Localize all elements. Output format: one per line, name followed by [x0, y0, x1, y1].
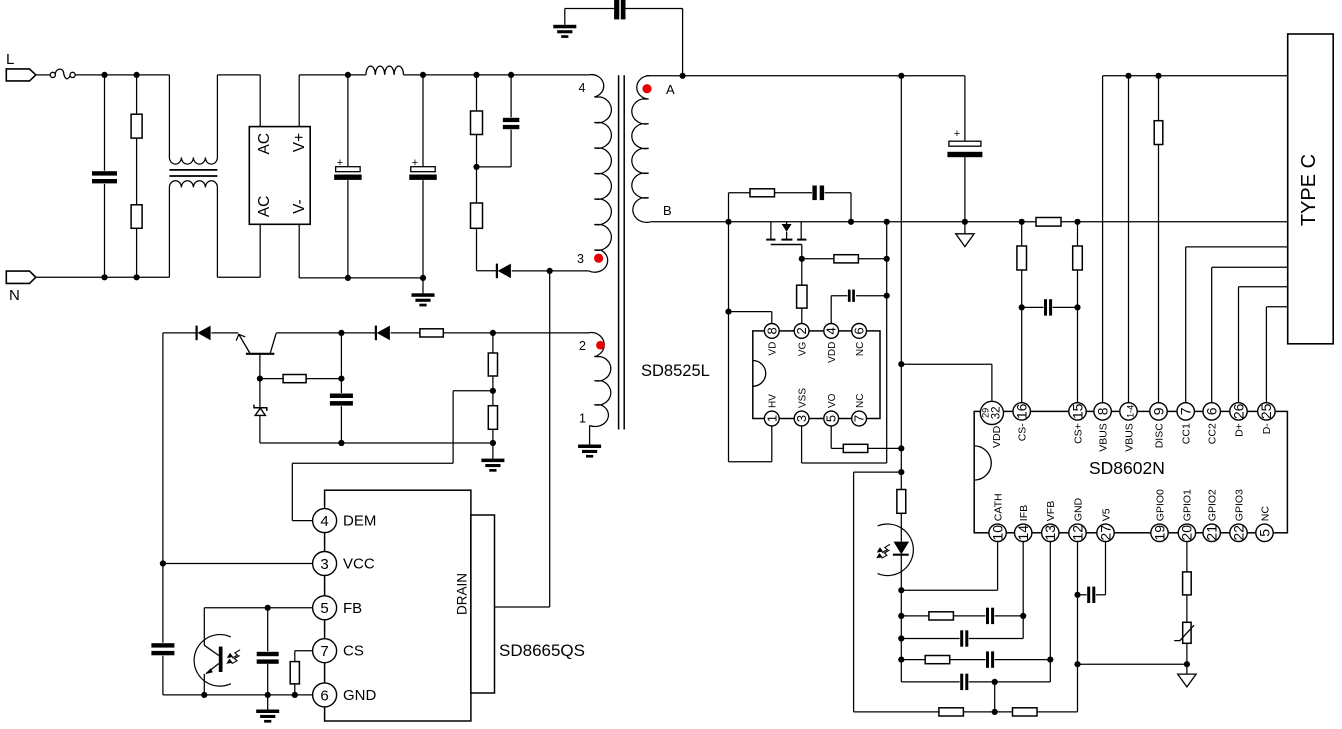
- pin 6 NC U2: [852, 324, 867, 357]
- wire VDD cap row: [831, 296, 887, 324]
- wire HV riser: [728, 193, 730, 462]
- svg-text:GPIO0: GPIO0: [1154, 489, 1166, 521]
- svg-text:GPIO3: GPIO3: [1233, 489, 1245, 521]
- capacitor C13: [329, 333, 354, 443]
- pin VDD 29/32 U5: [901, 364, 1003, 448]
- pin 14 IFB U5: [1015, 505, 1032, 542]
- svg-text:VFB: VFB: [1045, 501, 1057, 521]
- wire D- row: [1266, 307, 1287, 404]
- wire V5 cap row: [1078, 541, 1106, 595]
- wire D2 to Q2: [211, 332, 238, 334]
- node C1 bottom: [345, 275, 351, 281]
- pin 7 NC U2: [852, 394, 867, 426]
- svg-text:+: +: [954, 128, 960, 140]
- node N-CX1: [101, 274, 107, 280]
- pin 8 VBUS U5: [1094, 403, 1111, 452]
- svg-text:+: +: [337, 157, 343, 169]
- label SD8525L: [641, 362, 710, 380]
- svg-text:1: 1: [764, 415, 779, 422]
- resistor R6 snub: [750, 189, 775, 197]
- svg-text:L: L: [6, 51, 14, 68]
- resistor R13 bottom: [939, 708, 964, 716]
- svg-text:7: 7: [320, 643, 328, 660]
- label pin 4: [579, 81, 586, 95]
- svg-text:SD8602N: SD8602N: [1089, 458, 1165, 478]
- capacitor C3 snubber: [477, 75, 521, 167]
- opto U3 phototransistor: [194, 635, 240, 695]
- svg-text:3: 3: [320, 556, 328, 573]
- node VCC: [160, 560, 166, 566]
- wire VFB row: [901, 541, 1050, 660]
- wire CS- column: [1021, 222, 1023, 404]
- pin 12 GND U5: [1069, 497, 1086, 541]
- wire CC2 row: [1212, 267, 1288, 403]
- wire Q2 collector row: [276, 332, 376, 334]
- node row4 tap: [992, 679, 998, 685]
- wire VSS riser: [802, 222, 887, 463]
- svg-text:DISC: DISC: [1153, 423, 1165, 449]
- svg-text:2: 2: [794, 327, 809, 334]
- wire row4 to bottom: [994, 682, 996, 712]
- svg-text:3: 3: [794, 415, 809, 422]
- resistor R10 opto: [897, 490, 906, 542]
- pin 10 CATH U5: [989, 493, 1006, 541]
- wire base row: [260, 378, 342, 380]
- transistor Q2: [236, 333, 276, 378]
- wire choke to bridge bottom: [217, 187, 260, 277]
- svg-text:5: 5: [824, 415, 839, 422]
- svg-text:21: 21: [1204, 525, 1220, 541]
- wire CS row: [295, 651, 314, 695]
- resistor R12 VFB: [925, 656, 950, 664]
- capacitor CX1: [91, 75, 118, 277]
- node varistor gnd: [1184, 661, 1190, 667]
- capacitor C1 bulk: [334, 75, 362, 278]
- svg-text:VBUS: VBUS: [1097, 423, 1109, 452]
- svg-text:6: 6: [852, 327, 867, 334]
- node DEM tap: [490, 388, 496, 394]
- terminal N: [6, 271, 36, 283]
- ground output triangle: [956, 222, 974, 247]
- resistor R19 base: [283, 375, 306, 383]
- wire HV row: [729, 426, 772, 462]
- pin 7 CC1 U5: [1177, 403, 1194, 445]
- label SD8665QS: [499, 641, 585, 660]
- wire VD row: [729, 312, 772, 324]
- pin 27 V5 U5: [1097, 508, 1114, 541]
- terminal L: [6, 69, 36, 81]
- node DISC: [1155, 73, 1161, 79]
- wire VO row: [831, 426, 901, 449]
- svg-text:V5: V5: [1100, 508, 1112, 521]
- pin 19 GPIO0 U5: [1151, 489, 1168, 542]
- wire drain line: [549, 271, 551, 607]
- wire IFB row: [901, 541, 1023, 616]
- pin 13 VFB U5: [1042, 501, 1059, 542]
- node drain tap: [547, 268, 553, 274]
- drain tab U1: [455, 515, 495, 693]
- svg-text:8: 8: [764, 327, 779, 334]
- svg-text:5: 5: [1256, 529, 1272, 537]
- wire bus to transformer: [404, 74, 589, 76]
- svg-text:GND: GND: [1072, 497, 1084, 521]
- capacitor C15 FB: [256, 608, 280, 695]
- svg-text:CATH: CATH: [992, 493, 1004, 521]
- pin 20 GPIO1 U5: [1178, 489, 1195, 542]
- ground bridge: [412, 278, 435, 307]
- varistor RV1: [1174, 622, 1194, 643]
- svg-text:DRAIN: DRAIN: [455, 573, 470, 615]
- wire L to fuse: [36, 74, 50, 76]
- resistor R23 CS: [290, 662, 299, 684]
- wire D4 to R20: [391, 332, 420, 334]
- svg-text:5: 5: [320, 600, 328, 617]
- capacitor CY1: [614, 0, 625, 19]
- diode D1 clamp: [497, 264, 511, 279]
- label pin 2: [579, 339, 586, 353]
- svg-text:27: 27: [1097, 525, 1113, 541]
- node C2 bottom: [420, 275, 426, 281]
- svg-text:9: 9: [1150, 407, 1166, 415]
- wire VCC left riser: [162, 333, 164, 564]
- svg-text:8: 8: [1094, 407, 1110, 415]
- capacitor C14 VCC: [150, 643, 175, 656]
- node divider top: [490, 330, 496, 336]
- node bottom mid: [992, 709, 998, 715]
- wire V- down: [299, 224, 423, 278]
- svg-text:16: 16: [1014, 403, 1030, 419]
- capacitor C8 IFB2: [960, 629, 969, 647]
- svg-text:4: 4: [579, 81, 586, 95]
- node GND-varistor row: [1074, 661, 1080, 667]
- resistor R16 CS-: [1017, 246, 1027, 270]
- wire gate row: [802, 258, 887, 260]
- node CS gnd: [292, 692, 298, 698]
- pin 5 FB U1: [313, 596, 363, 620]
- wire VBUS8 column: [1102, 76, 1104, 404]
- node L-CX1: [101, 72, 107, 78]
- wire drain tab: [495, 606, 550, 608]
- wire VBUS sense rail: [1103, 75, 1288, 77]
- node gate: [799, 256, 805, 262]
- node C13 bottom: [338, 440, 344, 446]
- pin 25 D- U5: [1258, 403, 1275, 435]
- ground varistor triangle: [1178, 664, 1196, 687]
- pin 4 VDD U2: [824, 324, 839, 363]
- node CS+ cap: [1074, 304, 1080, 310]
- pin 3 VCC U1: [313, 552, 375, 576]
- resistor R14 bottom: [1013, 708, 1038, 716]
- svg-text:TYPE C: TYPE C: [1298, 154, 1320, 226]
- svg-text:25: 25: [1258, 403, 1274, 419]
- node C13 top: [338, 330, 344, 336]
- bridge rectifier BR1: [249, 127, 310, 225]
- node VD: [725, 309, 731, 315]
- label SD8602N: [1089, 458, 1165, 478]
- svg-text:6: 6: [320, 687, 328, 704]
- resistor R9 VO: [843, 444, 868, 452]
- resistor R20: [420, 329, 443, 337]
- transformer core: [619, 75, 625, 429]
- capacitor C7 IFB: [986, 607, 995, 625]
- capacitor C5 snub: [812, 185, 825, 202]
- resistor R8 VG series: [797, 259, 807, 324]
- svg-text:VDD: VDD: [827, 342, 838, 363]
- wire divider: [492, 333, 494, 443]
- pin 6 GND U1: [313, 683, 377, 707]
- transformer primary winding pin4-pin3: [589, 75, 612, 273]
- wire FB row: [204, 608, 313, 646]
- resistor R18 DISC: [1154, 121, 1163, 145]
- svg-text:GPIO2: GPIO2: [1207, 489, 1219, 521]
- pin 21 GPIO2 U5: [1203, 489, 1220, 542]
- wire row4: [901, 660, 1050, 682]
- wire CC1 row: [1186, 247, 1288, 404]
- wire VCC row: [163, 563, 313, 565]
- pin 7 CS U1: [313, 639, 364, 663]
- wire GND row: [163, 694, 313, 696]
- svg-text:13: 13: [1042, 525, 1058, 541]
- svg-text:2: 2: [579, 339, 586, 353]
- connector J1 TYPE C: [1288, 34, 1334, 344]
- resistor R2: [131, 205, 142, 229]
- wire V+ bus: [348, 74, 366, 76]
- capacitor C11 V5: [1087, 586, 1096, 604]
- node IFB row: [898, 613, 904, 619]
- pin 3 VSS U2: [794, 388, 809, 426]
- node IFB join: [1020, 613, 1026, 619]
- node rail RC: [725, 219, 731, 225]
- svg-text:IFB: IFB: [1018, 505, 1030, 521]
- capacitor C9 VFB: [986, 650, 995, 668]
- wire row2: [901, 616, 1023, 639]
- svg-text:10: 10: [989, 525, 1005, 541]
- node gate row right: [884, 256, 890, 262]
- node gnd loop tap: [898, 469, 904, 475]
- pin 6 CC2 U5: [1203, 403, 1220, 445]
- svg-text:VO: VO: [827, 393, 838, 408]
- pin 2 VG U2: [794, 324, 809, 357]
- svg-text:15: 15: [1069, 403, 1085, 419]
- svg-text:19: 19: [1151, 525, 1167, 541]
- svg-text:32: 32: [990, 407, 1002, 420]
- svg-text:GPIO1: GPIO1: [1182, 489, 1194, 521]
- node VBUS feed: [898, 73, 904, 79]
- svg-text:1: 1: [579, 412, 586, 426]
- label B: [663, 203, 672, 218]
- label pin 3: [577, 252, 584, 266]
- node opto cathode: [898, 587, 904, 593]
- node GND-V5cap: [1074, 592, 1080, 598]
- pin 5 VO U2: [824, 393, 839, 426]
- transformer aux winding pin2-pin1: [589, 333, 611, 427]
- resistor R5 shunt: [1036, 218, 1061, 227]
- resistor R22 divider: [488, 406, 497, 430]
- svg-text:V-: V-: [291, 199, 308, 214]
- capacitor C10 VFB2: [960, 673, 969, 691]
- pin 1 HV U2: [764, 394, 779, 426]
- node VDD cap right: [884, 293, 890, 299]
- svg-text:CS-: CS-: [1017, 423, 1029, 442]
- node C2 top: [420, 72, 426, 78]
- node row2: [898, 635, 904, 641]
- svg-text:CS+: CS+: [1072, 423, 1084, 444]
- wire VBUS feed line: [900, 76, 902, 490]
- svg-text:FB: FB: [343, 600, 362, 617]
- wire snubber to diode: [477, 270, 497, 272]
- svg-text:4: 4: [320, 513, 328, 530]
- node opto emitter: [201, 692, 207, 698]
- svg-text:29: 29: [981, 408, 991, 418]
- polarity dot pin 3: [594, 254, 603, 263]
- node VFB join: [1047, 657, 1053, 663]
- wire V+ up: [299, 75, 348, 127]
- svg-text:CS: CS: [343, 643, 364, 660]
- svg-text:7: 7: [1178, 407, 1194, 415]
- svg-text:AC: AC: [256, 133, 273, 155]
- node CS- cap: [1019, 304, 1025, 310]
- svg-text:26: 26: [1230, 403, 1246, 419]
- wire A rail corner down: [964, 76, 966, 141]
- svg-text:NC: NC: [1259, 506, 1271, 522]
- svg-text:+: +: [412, 157, 418, 169]
- resistor R4 snubber: [471, 203, 483, 228]
- wire snubber R down: [476, 75, 478, 271]
- wire RC row: [729, 193, 852, 222]
- svg-text:A: A: [666, 82, 675, 97]
- wire gnd loop: [854, 472, 902, 712]
- wire CS+ column: [1077, 222, 1079, 404]
- wire comp line down: [900, 590, 902, 682]
- pin 9 DISC U5: [1150, 403, 1167, 449]
- op-amp U1 SD8665QS box: [325, 490, 471, 721]
- wire CS cap row: [1022, 306, 1078, 308]
- svg-text:HV: HV: [768, 394, 779, 408]
- node C3 top: [508, 72, 514, 78]
- wire N corner up: [168, 187, 170, 277]
- wire diode to pin3: [512, 270, 589, 272]
- transistor Q1 sync FET: [766, 222, 806, 259]
- svg-text:4: 4: [824, 327, 839, 334]
- svg-text:VG: VG: [797, 341, 808, 356]
- node rail CS+: [1074, 219, 1080, 225]
- transformer secondary winding A-B: [632, 76, 651, 223]
- wire pin1 to ground: [589, 426, 591, 445]
- svg-text:NC: NC: [855, 394, 866, 408]
- svg-text:DEM: DEM: [343, 513, 376, 530]
- wire A rail: [646, 75, 965, 77]
- capacitor C2 bulk: [409, 75, 437, 278]
- svg-text:6: 6: [1204, 407, 1220, 415]
- node C1 top: [345, 72, 351, 78]
- op-amp U2 SD8525L box: [753, 331, 880, 419]
- node snubber mid: [473, 164, 479, 170]
- svg-text:AC: AC: [256, 196, 273, 218]
- node FB gnd: [265, 692, 271, 698]
- node VBUS14: [1125, 73, 1131, 79]
- diode D4: [376, 326, 390, 341]
- ground aux winding: [578, 445, 601, 458]
- svg-text:GND: GND: [343, 687, 377, 704]
- capacitor C4 output bulk: [947, 128, 982, 222]
- node C4 gnd: [962, 219, 968, 225]
- resistor R21 divider: [488, 353, 497, 376]
- svg-text:B: B: [663, 203, 672, 218]
- wire CATH row: [901, 541, 997, 590]
- wire zener row: [260, 442, 342, 444]
- wire N to choke: [36, 276, 170, 278]
- wire VBUS14 column: [1128, 76, 1130, 404]
- svg-text:1-4: 1-4: [1125, 405, 1135, 418]
- svg-text:NC: NC: [855, 342, 866, 356]
- svg-text:CC1: CC1: [1181, 423, 1193, 444]
- svg-text:12: 12: [1069, 525, 1085, 541]
- wire DISC column: [1158, 76, 1160, 404]
- pin 26 D+ U5: [1230, 403, 1247, 437]
- node snubber top: [473, 72, 479, 78]
- svg-text:VCC: VCC: [343, 556, 375, 573]
- ground divider: [481, 443, 504, 472]
- node VFB row: [898, 657, 904, 663]
- terminal L label: [6, 51, 14, 68]
- node rail VSS: [884, 219, 890, 225]
- resistor R7 gate: [834, 255, 859, 263]
- wire Y-cap to A rail: [626, 9, 683, 76]
- common-mode choke LF1: [169, 157, 217, 187]
- wire zener row join: [341, 442, 493, 444]
- diode D2: [197, 326, 211, 341]
- resistor R15 GPIO1: [1183, 572, 1192, 595]
- node N-R2: [134, 274, 140, 280]
- wire D+ row: [1239, 287, 1288, 404]
- pin 4 DEM U1: [313, 509, 377, 533]
- wire top aux row left: [163, 332, 196, 334]
- wire L corner down: [168, 75, 170, 157]
- svg-text:D-: D-: [1261, 423, 1273, 435]
- label pin 1: [579, 412, 586, 426]
- polarity dot pin 2: [596, 341, 605, 350]
- svg-text:V+: V+: [291, 133, 308, 152]
- node divider bottom: [490, 440, 496, 446]
- label A: [666, 82, 675, 97]
- capacitor C12 CS: [1044, 298, 1053, 316]
- pin 16 CS- U5: [1013, 403, 1030, 442]
- wire R20 to aux: [443, 332, 588, 334]
- svg-text:VDD: VDD: [991, 425, 1003, 448]
- polarity dot A: [642, 84, 651, 93]
- node C13 base: [338, 376, 344, 382]
- resistor R1: [131, 75, 142, 277]
- terminal N label: [9, 287, 20, 304]
- svg-text:VD: VD: [768, 342, 779, 356]
- svg-text:SD8665QS: SD8665QS: [499, 641, 585, 660]
- node base: [257, 376, 263, 382]
- svg-text:22: 22: [1230, 525, 1246, 541]
- op-amp U5 SD8602N box: [974, 411, 1287, 532]
- pin 15 CS+ U5: [1069, 403, 1086, 444]
- wire choke to bridge top: [217, 75, 260, 157]
- resistor R11 IFB: [929, 612, 954, 620]
- node L-R1: [134, 72, 140, 78]
- node VO tap: [898, 445, 904, 451]
- capacitor C6 VDD: [847, 289, 855, 303]
- wire GND rail: [651, 221, 1288, 223]
- svg-text:7: 7: [852, 415, 867, 422]
- resistor R3 snubber: [471, 111, 483, 135]
- node rail snub right: [848, 219, 854, 225]
- wire VCC cap line: [162, 564, 164, 695]
- svg-text:20: 20: [1179, 525, 1195, 541]
